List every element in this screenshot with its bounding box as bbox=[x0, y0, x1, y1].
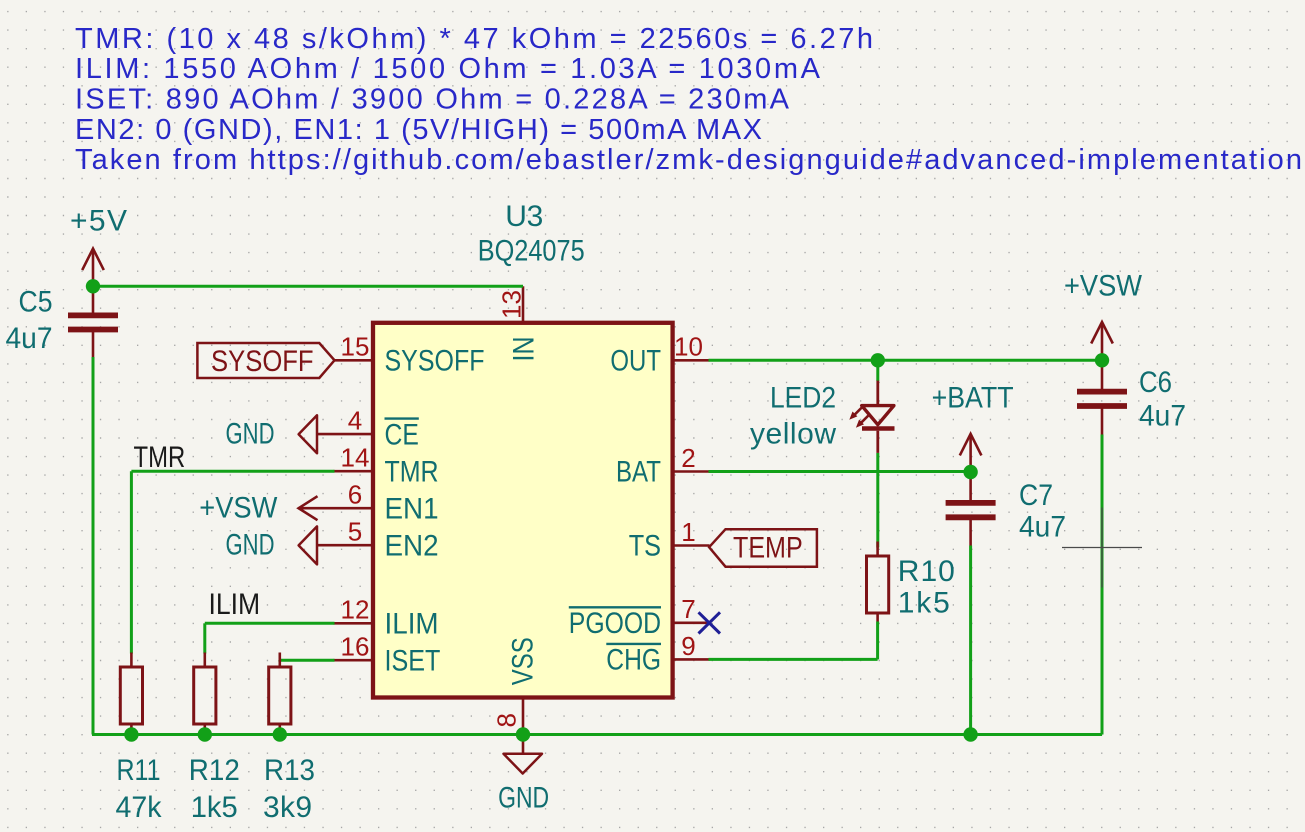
global label SYSOFF bbox=[197, 343, 334, 378]
svg-text:CHG: CHG bbox=[606, 644, 661, 677]
svg-text:R13: R13 bbox=[264, 754, 315, 787]
wire left rail down bbox=[92, 357, 95, 735]
svg-text:BAT: BAT bbox=[616, 456, 661, 489]
svg-text:VSS: VSS bbox=[507, 637, 540, 685]
capacitor C5 bbox=[68, 286, 118, 357]
svg-text:R10: R10 bbox=[898, 555, 955, 588]
pin 9 CHG bbox=[606, 631, 709, 677]
svg-text:EN1: EN1 bbox=[385, 492, 439, 525]
LED D2 bbox=[850, 361, 894, 453]
svg-text:1k5: 1k5 bbox=[191, 791, 238, 824]
svg-text:4u7: 4u7 bbox=[1019, 511, 1066, 544]
svg-text:+VSW: +VSW bbox=[1064, 270, 1143, 303]
svg-text:U3: U3 bbox=[505, 200, 543, 233]
pin 6 EN1 bbox=[334, 480, 439, 526]
svg-text:yellow: yellow bbox=[750, 417, 836, 450]
svg-text:ILIM: ILIM bbox=[209, 588, 261, 621]
svg-text:12: 12 bbox=[341, 595, 370, 625]
pin 8 VSS (bottom) bbox=[492, 637, 540, 733]
svg-text:3k9: 3k9 bbox=[263, 791, 312, 824]
svg-text:GND: GND bbox=[226, 528, 275, 561]
junction R12 rail bbox=[198, 727, 212, 741]
svg-text:7: 7 bbox=[681, 594, 695, 624]
svg-text:R11: R11 bbox=[117, 754, 161, 787]
no-connect at PGOOD bbox=[699, 612, 721, 633]
resistor R12 bbox=[194, 653, 216, 734]
power +VSW (top right) bbox=[1064, 270, 1143, 361]
junction VSS rail bbox=[516, 727, 530, 741]
junction C7 rail bbox=[963, 727, 977, 741]
svg-text:4u7: 4u7 bbox=[6, 322, 53, 355]
wire BAT to C7 bbox=[709, 470, 971, 473]
svg-text:TMR: TMR bbox=[385, 455, 439, 488]
svg-text:10: 10 bbox=[674, 332, 703, 362]
svg-text:9: 9 bbox=[681, 631, 695, 661]
svg-text:GND: GND bbox=[226, 417, 275, 450]
power GND at CE bbox=[226, 415, 334, 453]
wire ISET net bbox=[280, 660, 335, 661]
svg-text:SYSOFF: SYSOFF bbox=[385, 345, 485, 378]
wire ILIM net bbox=[205, 623, 335, 653]
pin 12 ILIM bbox=[334, 595, 439, 641]
junction OUT-VSW node bbox=[1095, 353, 1109, 367]
pin 4 CE bbox=[334, 406, 419, 452]
junction R13 rail bbox=[273, 727, 287, 741]
pin 7 PGOOD bbox=[569, 594, 710, 640]
svg-text:13: 13 bbox=[497, 290, 527, 319]
pin 13 IN (top) bbox=[497, 286, 541, 361]
junction OUT-LED node bbox=[871, 353, 885, 367]
IC U3 BQ24075 body bbox=[373, 323, 673, 698]
cursor crosshair bbox=[1062, 508, 1142, 588]
wire TMR net bbox=[131, 471, 334, 653]
resistor R10 bbox=[867, 542, 889, 622]
pin 16 ISET bbox=[334, 632, 441, 678]
pin 5 EN2 bbox=[334, 517, 439, 563]
svg-text:IN: IN bbox=[508, 337, 541, 362]
power GND at VSS bbox=[498, 735, 549, 815]
pin 15 SYSOFF bbox=[334, 332, 485, 378]
capacitor C7 bbox=[946, 474, 996, 546]
resistor R13 bbox=[269, 653, 291, 734]
svg-text:C6: C6 bbox=[1139, 366, 1172, 399]
svg-text:SYSOFF: SYSOFF bbox=[211, 345, 314, 378]
svg-text:C5: C5 bbox=[19, 285, 53, 318]
svg-text:4u7: 4u7 bbox=[1139, 400, 1186, 433]
svg-text:ILIM: 1550 AOhm / 1500 Ohm = 1: ILIM: 1550 AOhm / 1500 Ohm = 1.03A = 103… bbox=[75, 53, 821, 85]
svg-text:6: 6 bbox=[348, 480, 362, 510]
svg-text:Taken from https://github.com/: Taken from https://github.com/ebastler/z… bbox=[75, 144, 1302, 176]
global label TEMP bbox=[709, 529, 817, 567]
power +VSW at EN1 bbox=[199, 491, 333, 524]
svg-text:TS: TS bbox=[629, 530, 661, 563]
svg-text:OUT: OUT bbox=[610, 345, 661, 378]
svg-text:+BATT: +BATT bbox=[932, 381, 1014, 414]
junction +5V bbox=[86, 279, 100, 293]
svg-text:BQ24075: BQ24075 bbox=[478, 235, 585, 268]
svg-text:16: 16 bbox=[341, 632, 370, 662]
power +5V bbox=[70, 204, 127, 286]
wire C6 down bbox=[1101, 435, 1104, 735]
svg-text:4: 4 bbox=[348, 406, 362, 436]
resistor R11 bbox=[120, 653, 142, 734]
pin 2 BAT bbox=[616, 443, 710, 489]
svg-text:TMR: (10 x 48 s/kOhm) * 47 kOh: TMR: (10 x 48 s/kOhm) * 47 kOhm = 22560s… bbox=[75, 23, 873, 55]
pin 14 TMR bbox=[334, 443, 439, 489]
pin 10 OUT bbox=[610, 332, 709, 378]
svg-text:LED2: LED2 bbox=[770, 382, 836, 415]
svg-text:15: 15 bbox=[341, 332, 370, 362]
svg-text:R12: R12 bbox=[189, 754, 240, 787]
wire +5V to IN bbox=[93, 285, 523, 288]
svg-text:1: 1 bbox=[681, 517, 695, 547]
svg-text:+5V: +5V bbox=[70, 204, 127, 237]
svg-text:EN2: 0 (GND), EN1: 1 (5V/HIGH): EN2: 0 (GND), EN1: 1 (5V/HIGH) = 500mA M… bbox=[75, 114, 762, 146]
wire bottom GND rail bbox=[92, 733, 1102, 736]
junction BAT-C7 node bbox=[963, 465, 977, 479]
svg-text:5: 5 bbox=[348, 517, 362, 547]
svg-text:+VSW: +VSW bbox=[199, 491, 278, 524]
svg-text:1k5: 1k5 bbox=[898, 586, 950, 619]
wire LED to R10 bbox=[876, 453, 879, 548]
pin 1 TS bbox=[629, 517, 710, 563]
svg-text:CE: CE bbox=[385, 418, 419, 451]
svg-text:47k: 47k bbox=[116, 791, 163, 824]
svg-text:8: 8 bbox=[492, 713, 522, 727]
svg-text:2: 2 bbox=[681, 443, 695, 473]
svg-text:TMR: TMR bbox=[134, 441, 186, 474]
svg-text:ILIM: ILIM bbox=[385, 608, 439, 641]
text notes block bbox=[75, 23, 1302, 176]
wire C7 down bbox=[969, 546, 972, 735]
svg-text:GND: GND bbox=[498, 782, 549, 815]
power GND at EN2 bbox=[226, 526, 334, 564]
power +BATT bbox=[932, 381, 1014, 472]
svg-text:ISET: ISET bbox=[385, 644, 441, 677]
svg-text:C7: C7 bbox=[1019, 479, 1053, 512]
svg-text:14: 14 bbox=[341, 443, 370, 473]
wire OUT to +VSW bbox=[709, 359, 1103, 362]
capacitor C6 bbox=[1077, 363, 1127, 435]
svg-text:EN2: EN2 bbox=[385, 529, 439, 562]
svg-text:TEMP: TEMP bbox=[733, 531, 803, 564]
wire CHG to R10 bbox=[709, 622, 878, 660]
junction R11 rail bbox=[124, 727, 138, 741]
svg-text:PGOOD: PGOOD bbox=[569, 607, 661, 640]
